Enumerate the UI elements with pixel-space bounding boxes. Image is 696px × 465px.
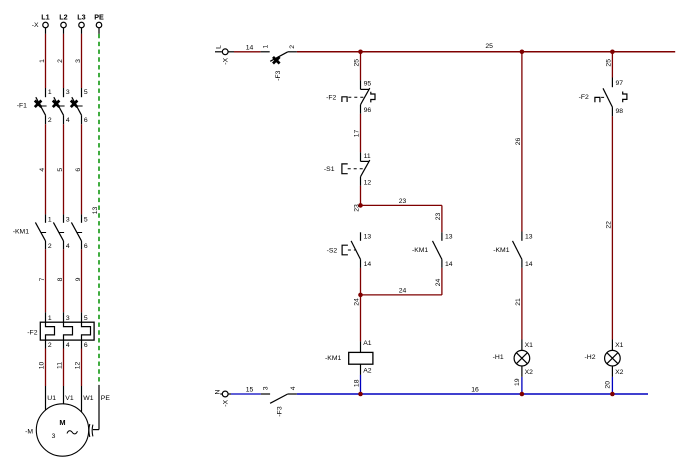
svg-text:V1: V1 (65, 395, 74, 402)
svg-text:-X: -X (223, 57, 230, 64)
aux contact -KM1 13-14 (lamp) (493, 232, 533, 268)
svg-text:6: 6 (84, 243, 88, 250)
svg-text:25: 25 (485, 43, 493, 50)
svg-text:2: 2 (48, 243, 52, 250)
terminal -X:L2 (61, 22, 67, 34)
svg-text:6: 6 (84, 117, 88, 124)
svg-text:-S1: -S1 (324, 166, 335, 173)
svg-text:-F3: -F3 (276, 406, 283, 416)
svg-text:15: 15 (246, 386, 254, 393)
aux contact -KM1 13-14 (hold-in) (412, 232, 453, 268)
wire from S2 to node 24 (360, 268, 362, 295)
svg-text:L2: L2 (59, 13, 67, 22)
svg-text:A2: A2 (363, 367, 372, 374)
wire 12 (F2 to motor) (74, 349, 81, 387)
svg-text:1: 1 (48, 89, 52, 96)
svg-text:-KM1: -KM1 (325, 355, 341, 362)
svg-text:-H2: -H2 (585, 354, 596, 361)
svg-text:98: 98 (616, 108, 624, 115)
svg-text:-F3: -F3 (275, 70, 282, 80)
svg-text:16: 16 (471, 386, 479, 393)
svg-text:13: 13 (92, 207, 99, 215)
wire 8 (KM1 to F2) (57, 249, 64, 312)
terminal -X:N (222, 391, 231, 407)
svg-text:8: 8 (57, 277, 64, 281)
svg-text:13: 13 (445, 234, 453, 241)
incoming neutral N (215, 389, 223, 394)
breaker -F1 pole 5-6 (71, 88, 88, 124)
svg-text:PE: PE (101, 395, 111, 402)
svg-text:5: 5 (57, 168, 64, 172)
wire to coil A1 (360, 295, 362, 341)
svg-text:23: 23 (399, 198, 407, 205)
svg-text:4: 4 (290, 386, 297, 390)
contactor -KM1 label (power) (13, 229, 29, 236)
wire 3 (L3 to F1) (75, 34, 82, 88)
svg-text:2: 2 (289, 45, 296, 49)
svg-text:X1: X1 (525, 342, 534, 349)
svg-text:2: 2 (48, 342, 52, 349)
breaker -F3 pole 3-4 (261, 386, 297, 416)
svg-text:6: 6 (84, 342, 88, 349)
wire 10 (F2 to motor) (38, 349, 45, 387)
wire 5 (F1 to KM1) (57, 124, 64, 214)
wire 19 (514, 377, 522, 394)
svg-text:3: 3 (66, 89, 70, 96)
svg-text:-F2: -F2 (579, 94, 589, 101)
wire 24 (right branch) (435, 268, 442, 295)
svg-text:7: 7 (39, 277, 46, 281)
svg-text:U1: U1 (47, 395, 56, 402)
svg-text:-M: -M (25, 429, 33, 436)
contactor -KM1 pole 3-4 (53, 214, 70, 250)
terminal strip -X phase labels (32, 13, 104, 29)
svg-text:1: 1 (263, 44, 270, 48)
lamp -H2 (585, 340, 624, 377)
thermal overload relay -F2 (27, 312, 94, 349)
start button -S2 (327, 232, 372, 268)
terminal -X:L (222, 49, 234, 65)
wire 14 (234, 44, 261, 52)
svg-text:5: 5 (84, 216, 88, 223)
stop button -S1 (324, 152, 371, 186)
svg-text:14: 14 (246, 44, 254, 51)
svg-text:L: L (216, 45, 223, 49)
svg-text:14: 14 (445, 261, 453, 268)
svg-text:12: 12 (74, 362, 81, 370)
node bottom-3 (610, 392, 615, 397)
node 23 (353, 203, 362, 212)
svg-text:3: 3 (75, 59, 82, 63)
wire 13 PE (green dashed) (92, 34, 99, 385)
wire 1 (L1 to F1) (39, 34, 46, 88)
wire 26 (515, 52, 522, 232)
svg-text:-KM1: -KM1 (13, 229, 29, 236)
svg-text:-F2: -F2 (27, 330, 37, 337)
svg-text:L1: L1 (41, 13, 49, 22)
svg-text:-X: -X (32, 22, 39, 29)
svg-text:-H1: -H1 (493, 354, 504, 361)
svg-text:11: 11 (364, 153, 371, 160)
svg-text:-F1: -F1 (17, 102, 27, 109)
wire 23 (horizontal) (361, 198, 442, 206)
wire 23 (right branch) (435, 205, 442, 232)
svg-text:M: M (59, 418, 65, 427)
terminal -X:PE (96, 22, 102, 34)
svg-text:2: 2 (48, 117, 52, 124)
svg-text:13: 13 (364, 234, 372, 241)
svg-text:X2: X2 (525, 369, 534, 376)
svg-text:23: 23 (435, 213, 442, 221)
wire 9 (KM1 to F2) (75, 249, 82, 312)
svg-text:-F2: -F2 (326, 94, 336, 101)
svg-text:A1: A1 (363, 340, 372, 347)
svg-text:13: 13 (525, 234, 533, 241)
breaker -F3 pole 1-2 (261, 44, 297, 80)
wire 25 drop (353, 52, 360, 81)
wire 17 (353, 114, 360, 153)
contactor coil -KM1 (325, 340, 373, 375)
terminal -X:L3 (79, 22, 85, 34)
wire 6 (F1 to KM1) (75, 124, 82, 214)
svg-text:-S2: -S2 (327, 248, 338, 255)
svg-text:1: 1 (48, 315, 52, 322)
wire 2 (L2 to F1) (57, 34, 64, 88)
node top-2 (520, 50, 525, 55)
wire 24 (horizontal) (361, 287, 442, 295)
svg-text:24: 24 (435, 279, 442, 287)
svg-text:26: 26 (515, 138, 522, 146)
wire 15 (231, 386, 261, 394)
svg-text:W1: W1 (83, 395, 93, 402)
svg-text:23: 23 (353, 204, 360, 212)
svg-text:24: 24 (353, 298, 360, 306)
svg-text:24: 24 (399, 287, 407, 294)
wire 22 (605, 116, 612, 339)
svg-text:X2: X2 (615, 369, 624, 376)
wire to node 23 (360, 186, 362, 206)
wire 21 (515, 268, 522, 340)
svg-text:21: 21 (515, 298, 522, 306)
svg-text:X1: X1 (615, 342, 624, 349)
wire 7 (KM1 to F2) (39, 249, 46, 312)
svg-text:-KM1: -KM1 (493, 247, 509, 254)
node top-1 (358, 50, 363, 55)
svg-text:L3: L3 (77, 13, 85, 22)
thermal contact -F2 97-98 (579, 78, 627, 117)
motor terminal V1 (64, 386, 74, 404)
motor terminal U1 (46, 386, 57, 411)
breaker -F1 label (17, 102, 27, 109)
svg-text:96: 96 (364, 107, 372, 114)
svg-text:17: 17 (353, 130, 360, 138)
svg-text:-KM1: -KM1 (412, 247, 428, 254)
svg-text:95: 95 (364, 81, 372, 88)
wire 4 (F1 to KM1) (39, 124, 46, 214)
wire 18 (353, 375, 360, 394)
terminal -X:L1 (43, 22, 49, 34)
breaker -F1 pole 3-4 (53, 88, 70, 124)
lamp -H1 (493, 340, 533, 377)
wire 20 (604, 377, 612, 394)
motor terminal W1 (82, 386, 94, 413)
svg-text:1: 1 (39, 59, 46, 63)
svg-text:12: 12 (364, 179, 372, 186)
thermal contact -F2 95-96 (326, 80, 375, 114)
svg-text:3: 3 (263, 386, 270, 390)
svg-text:25: 25 (353, 59, 360, 67)
neutral bus 16 (297, 386, 648, 394)
svg-text:4: 4 (66, 117, 70, 124)
contactor -KM1 pole 1-2 (35, 214, 52, 250)
svg-text:18: 18 (353, 379, 360, 387)
svg-text:14: 14 (525, 261, 533, 268)
contactor -KM1 pole 5-6 (71, 214, 88, 250)
wire 25 (right drop) (605, 52, 612, 78)
node top-3 (610, 50, 615, 55)
svg-text:20: 20 (604, 381, 611, 389)
wire 11 (F2 to motor) (56, 349, 63, 387)
svg-text:9: 9 (75, 277, 82, 281)
svg-text:4: 4 (66, 342, 70, 349)
svg-text:25: 25 (605, 59, 612, 67)
svg-text:3: 3 (66, 315, 70, 322)
svg-text:1: 1 (48, 216, 52, 223)
svg-text:6: 6 (75, 168, 82, 172)
svg-text:11: 11 (56, 362, 63, 369)
svg-text:PE: PE (94, 13, 104, 22)
node bottom-2 (520, 392, 525, 397)
svg-text:19: 19 (514, 378, 521, 386)
control line 25 (top) (297, 43, 675, 52)
breaker -F1 pole 1-2 (35, 88, 52, 124)
svg-text:5: 5 (84, 89, 88, 96)
incoming phase L (215, 45, 223, 52)
svg-text:2: 2 (57, 59, 64, 63)
svg-text:3: 3 (52, 433, 56, 440)
svg-text:4: 4 (66, 243, 70, 250)
svg-text:3: 3 (66, 216, 70, 223)
svg-text:10: 10 (38, 362, 45, 370)
motor -M (25, 404, 89, 456)
svg-text:22: 22 (605, 221, 612, 229)
svg-text:-X: -X (223, 399, 230, 406)
svg-text:97: 97 (616, 80, 624, 87)
svg-text:14: 14 (364, 261, 372, 268)
svg-text:5: 5 (84, 315, 88, 322)
svg-text:4: 4 (39, 168, 46, 172)
node bottom-1 (358, 392, 363, 397)
PE connection to motor frame (89, 385, 110, 437)
node 24 (353, 293, 362, 306)
